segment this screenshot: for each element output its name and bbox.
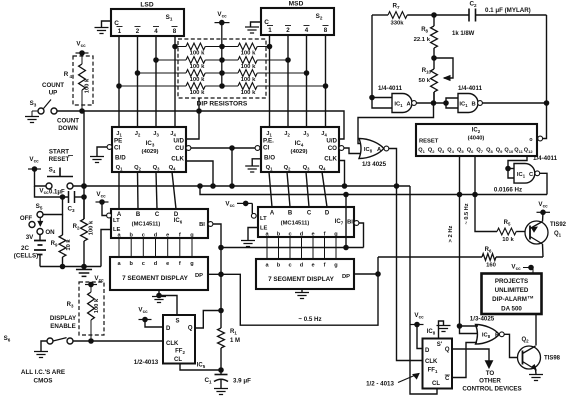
svg-text:CI: CI	[263, 145, 269, 152]
svg-text:IC1: IC1	[517, 172, 526, 179]
wire IC4 CLK down to bus	[339, 161, 345, 187]
svg-text:e: e	[166, 233, 169, 239]
svg-text:8: 8	[324, 27, 328, 34]
svg-text:~ 0.5 Hz: ~ 0.5 Hz	[298, 316, 321, 323]
svg-text:S': S'	[437, 342, 443, 348]
wire C2 node down to IC2 clock	[543, 15, 547, 139]
svg-text:Q3: Q3	[153, 165, 161, 172]
svg-text:DP: DP	[195, 273, 203, 279]
ground at S3	[31, 111, 33, 116]
wire display1 DP to blink loop	[208, 257, 378, 325]
ground at IC4 B/O	[245, 166, 259, 172]
svg-text:50 k: 50 k	[419, 78, 431, 84]
svg-text:R9: R9	[51, 241, 58, 248]
svg-text:22.1 k: 22.1 k	[414, 37, 431, 43]
resistor 100k row 3 left	[138, 72, 187, 74]
wire MSD pin 8 to IC4 J4	[325, 35, 327, 127]
thumbwheel switch S2 (MSD)	[261, 1, 334, 36]
wire Q1 emitter to R6 line	[542, 244, 545, 257]
resistor R7 330k	[372, 14, 388, 16]
7 segment display 2	[256, 259, 354, 289]
svg-text:4: 4	[305, 27, 309, 34]
svg-text:DISPLAY: DISPLAY	[50, 315, 77, 322]
svg-text:ON: ON	[45, 229, 55, 236]
ground above FF1 S-prime	[439, 321, 444, 339]
svg-text:Q3: Q3	[438, 148, 445, 155]
svg-text:Q2: Q2	[134, 165, 142, 172]
svg-text:IC8: IC8	[427, 329, 436, 336]
flip-flop FF1 (1/2-4013)	[423, 339, 453, 389]
svg-text:> 2 Hz: > 2 Hz	[448, 225, 454, 242]
svg-text:R2: R2	[73, 224, 80, 231]
ground at S6	[34, 352, 48, 358]
svg-text:CI: CI	[114, 145, 120, 152]
svg-text:Q11: Q11	[514, 148, 523, 155]
wire IC2 Q12 to IC1C input	[508, 156, 527, 178]
svg-text:J3: J3	[303, 131, 309, 138]
svg-text:1/3 4025: 1/3 4025	[362, 161, 387, 168]
svg-text:IC1: IC1	[459, 102, 468, 109]
wire MSD pin 4 to IC4 J3	[306, 35, 308, 127]
transistor Q1 TIS92	[525, 221, 548, 244]
svg-text:10 k: 10 k	[502, 237, 514, 243]
ground bottom wire	[40, 266, 101, 268]
resistor R3 100k in dashed box	[79, 282, 104, 335]
resistor R4 100k in dashed box	[73, 56, 93, 105]
svg-text:RESET: RESET	[419, 139, 439, 145]
wire display2 DP junction	[354, 273, 378, 275]
wire FF2 CL to C1 node	[180, 364, 221, 371]
svg-text:IC1: IC1	[394, 102, 403, 109]
svg-text:CLK: CLK	[425, 359, 438, 365]
svg-text:d: d	[300, 263, 304, 269]
wire IC1B output to C2 right node	[482, 102, 546, 104]
display driver IC6 (MC14511)	[111, 209, 208, 239]
svg-text:100 k: 100 k	[190, 64, 205, 70]
svg-text:TIS98: TIS98	[544, 356, 561, 362]
svg-text:START: START	[49, 149, 69, 156]
svg-text:1/4-4011: 1/4-4011	[458, 85, 483, 92]
svg-text:ENABLE: ENABLE	[50, 323, 75, 330]
wire IC3 Q2 to IC6 B	[137, 172, 140, 209]
wires into IC8B inputs	[460, 325, 479, 327]
svg-text:7 SEGMENT DISPLAY: 7 SEGMENT DISPLAY	[268, 276, 335, 283]
svg-text:Q1: Q1	[554, 231, 562, 238]
svg-text:f: f	[179, 233, 181, 239]
svg-text:DIP RESISTORS: DIP RESISTORS	[197, 101, 248, 108]
svg-text:100 k: 100 k	[241, 50, 256, 56]
svg-text:d: d	[154, 233, 158, 239]
svg-text:B: B	[288, 211, 293, 217]
svg-text:o: o	[529, 137, 532, 143]
wire IC7 BI to 0.0166Hz bus	[359, 223, 364, 248]
ground at IC3 PE	[90, 157, 104, 163]
svg-text:b: b	[277, 232, 281, 238]
resistor 100k row 1 left	[175, 46, 186, 48]
wire LSD C to ground	[102, 21, 112, 27]
svg-text:Q5: Q5	[457, 148, 464, 155]
svg-text:Q: Q	[445, 347, 450, 353]
main ground	[83, 267, 85, 270]
svg-text:CU: CU	[175, 145, 184, 152]
potentiometer R10 50k	[433, 58, 435, 69]
junction dots row 2	[220, 58, 225, 63]
wire IC2 tap to 0.0166 bus (2 Hz)	[459, 156, 461, 326]
svg-text:1/3-4025: 1/3-4025	[470, 316, 495, 323]
svg-text:100 k: 100 k	[89, 220, 95, 235]
svg-text:J2: J2	[135, 131, 141, 138]
svg-text:COUNT: COUNT	[42, 82, 64, 89]
svg-text:A: A	[270, 211, 275, 217]
wire IC1C output down to 0.0166Hz line	[540, 173, 547, 194]
ground at Q2 emitter	[535, 370, 538, 375]
svg-text:CO: CO	[328, 145, 337, 152]
wire MSD C to ground	[251, 22, 262, 27]
resistor R1 1M	[220, 311, 222, 329]
wiper wire of R10	[434, 58, 453, 78]
wire FF1 Q to other control devices	[452, 349, 489, 361]
svg-text:f: f	[324, 263, 326, 269]
wire CU branch down to clock bus	[231, 148, 233, 186]
svg-text:Q1: Q1	[418, 148, 425, 155]
svg-text:B: B	[472, 102, 476, 108]
wire LSD pin 2 to IC3 J2	[137, 36, 139, 127]
svg-text:J3: J3	[153, 131, 159, 138]
svg-text:Q4: Q4	[447, 148, 454, 155]
svg-text:100 k: 100 k	[94, 298, 100, 313]
wire IC7 LE to ground	[248, 228, 258, 241]
svg-text:CMOS: CMOS	[34, 378, 53, 385]
wire IC4 B/O to ground	[252, 159, 261, 166]
bubble at IC7 LT	[251, 213, 256, 218]
svg-text:100 k: 100 k	[85, 78, 91, 93]
wire LSD pin 4 to IC3 J3	[155, 36, 157, 127]
resistor 100k row 2 left	[156, 59, 186, 61]
junction dots row 3	[220, 71, 225, 76]
wire MSD pin 1 to IC4 J1	[269, 35, 271, 127]
resistor R6 160	[378, 256, 482, 258]
transistor Q2 TIS98	[518, 346, 541, 369]
wire DIP pack to count line	[198, 98, 200, 111]
svg-text:TIS92: TIS92	[550, 222, 566, 228]
bubble at IC7 BI	[354, 221, 359, 226]
svg-text:c: c	[288, 263, 291, 269]
ground at IC7 LE	[241, 241, 255, 247]
DIP resistor pack dashed box	[178, 39, 266, 98]
resistor R2 100k	[83, 197, 85, 219]
svg-text:2: 2	[286, 27, 290, 34]
svg-text:UP: UP	[49, 90, 58, 97]
svg-text:c: c	[288, 232, 291, 238]
wire FF1 Qbar feedback to IC8B	[452, 343, 477, 378]
svg-text:Q1: Q1	[266, 165, 274, 172]
svg-text:Q2: Q2	[428, 148, 435, 155]
svg-text:C: C	[264, 19, 269, 26]
svg-text:LT: LT	[113, 218, 120, 224]
svg-text:1: 1	[118, 28, 122, 35]
wire IC1A output down-left to NOR IC8A input	[358, 103, 434, 144]
7 segment display 1	[110, 257, 208, 290]
svg-text:COUNT: COUNT	[57, 118, 79, 125]
svg-text:R10: R10	[422, 68, 432, 75]
wire IC3 CLK down to bus	[186, 161, 213, 186]
svg-text:FF1: FF1	[428, 368, 438, 375]
svg-text:0.0166 Hz: 0.0166 Hz	[494, 187, 522, 194]
svg-text:R5: R5	[504, 220, 511, 227]
svg-text:CLK: CLK	[324, 156, 337, 163]
svg-text:Q2: Q2	[284, 165, 292, 172]
svg-text:100 k: 100 k	[241, 77, 256, 83]
wire count line to IC3 U/D	[186, 111, 199, 139]
svg-text:C: C	[445, 376, 450, 382]
svg-text:CONTROL DEVICES: CONTROL DEVICES	[462, 386, 521, 393]
display driver IC7 (MC14511)	[258, 207, 354, 238]
NOR gate IC8 A (1/3 4025)	[359, 139, 384, 159]
svg-text:330k: 330k	[390, 21, 404, 27]
svg-text:160: 160	[486, 263, 497, 269]
svg-text:1/2-4013: 1/2-4013	[134, 359, 159, 366]
svg-text:IC2: IC2	[472, 128, 481, 135]
svg-text:f: f	[324, 232, 326, 238]
svg-text:1k 1/8W: 1k 1/8W	[452, 31, 475, 37]
svg-text:Q7: Q7	[476, 148, 483, 155]
wire IC3 PE to ground	[97, 147, 107, 156]
svg-text:C: C	[155, 212, 160, 218]
svg-text:(CELLS): (CELLS)	[14, 253, 38, 260]
svg-text:Q4: Q4	[169, 165, 177, 172]
svg-text:1: 1	[268, 27, 272, 34]
svg-text:100 k: 100 k	[241, 90, 256, 96]
wires IC6 outputs a-g to display 1	[118, 238, 120, 257]
svg-text:100 k: 100 k	[241, 64, 256, 70]
svg-text:1/2 - 4013: 1/2 - 4013	[366, 381, 394, 388]
svg-text:0.1 μF (MYLAR): 0.1 μF (MYLAR)	[485, 7, 531, 14]
svg-text:Q8: Q8	[486, 148, 493, 155]
IC1A input wires	[372, 97, 392, 99]
svg-text:DOWN: DOWN	[58, 125, 78, 132]
svg-text:c: c	[142, 233, 145, 239]
svg-text:~ 0.5 Hz: ~ 0.5 Hz	[464, 203, 470, 224]
svg-text:CL: CL	[432, 381, 440, 387]
resistor R8 22.1k	[433, 15, 435, 26]
svg-text:IC5: IC5	[197, 363, 206, 370]
svg-text:1/4-4011: 1/4-4011	[533, 155, 558, 162]
ground below display 2	[301, 289, 303, 292]
wire IC4 Q3 to IC7 C	[306, 172, 309, 207]
ground at LSD	[95, 28, 109, 34]
vertical wire bus to FF1 CL loop	[410, 186, 437, 394]
svg-text:D: D	[425, 348, 430, 354]
svg-text:PROJECTS: PROJECTS	[495, 278, 528, 285]
wire LSD pin 8 to IC3 J4	[174, 36, 176, 127]
blanking line between IC6 BI and IC7 BI	[221, 247, 364, 249]
svg-text:DP: DP	[342, 274, 350, 280]
svg-text:Q10: Q10	[504, 148, 514, 155]
thumbwheel switch S1 (LSD)	[111, 2, 184, 37]
wires IC7 outputs a-g to display 2	[266, 237, 268, 259]
svg-text:UNLIMITED: UNLIMITED	[495, 287, 529, 294]
bubble at IC6 LT	[107, 213, 112, 218]
svg-text:100 k: 100 k	[190, 50, 205, 56]
resistor 100k row 4 left	[119, 85, 186, 87]
resistor 100k row 3 right	[222, 72, 238, 74]
svg-text:(4040): (4040)	[468, 136, 485, 142]
svg-text:(4029): (4029)	[290, 149, 307, 155]
svg-text:B: B	[136, 212, 141, 218]
svg-text:(MC14511): (MC14511)	[132, 222, 161, 228]
svg-text:CLK: CLK	[171, 156, 184, 163]
svg-text:7 SEGMENT DISPLAY: 7 SEGMENT DISPLAY	[122, 275, 189, 282]
svg-text:D: D	[166, 326, 171, 332]
junction dots row 4	[220, 84, 225, 89]
wire IC6 BI to blink line	[213, 224, 221, 311]
junction dots row 1	[220, 44, 225, 49]
svg-text:e: e	[166, 261, 169, 267]
svg-text:U/D: U/D	[326, 138, 337, 145]
wire R7 left leg down to IC1A inputs	[371, 15, 373, 98]
svg-text:2: 2	[136, 28, 140, 35]
svg-text:OTHER: OTHER	[479, 378, 501, 385]
svg-text:TO: TO	[486, 370, 495, 377]
svg-text:D: D	[325, 211, 330, 217]
capacitor C2 0.1uF mylar	[434, 14, 469, 16]
reset bus wire (horizontal)	[73, 185, 410, 187]
svg-text:Q4: Q4	[319, 165, 327, 172]
svg-text:LSD: LSD	[140, 2, 153, 9]
svg-text:LT: LT	[260, 216, 267, 222]
svg-text:PE: PE	[114, 138, 122, 145]
wire S6 to FF2 CLK	[73, 340, 163, 342]
svg-text:Q3: Q3	[303, 165, 311, 172]
svg-text:OFF: OFF	[20, 215, 33, 222]
wire IC3 Q3 to IC6 C	[156, 172, 157, 209]
svg-text:e: e	[311, 232, 314, 238]
svg-text:RESET: RESET	[49, 156, 70, 163]
wire IC8A output down to bus	[389, 149, 397, 187]
svg-text:IC8: IC8	[482, 333, 491, 340]
wire IC4 Q1 to IC7 A	[269, 172, 272, 207]
wire IC4 Q4 to IC7 D	[322, 172, 327, 207]
svg-text:1/4-4011: 1/4-4011	[378, 85, 403, 92]
wire IC6 LE to ground rail	[101, 230, 111, 267]
svg-text:R1: R1	[230, 329, 237, 336]
svg-text:DIP-ALARM: DIP-ALARM	[492, 296, 527, 303]
wire IC3 CU to IC4 CI	[191, 147, 255, 149]
resistor 100k row 1 right	[222, 46, 238, 48]
wire MSD pin 2 to IC4 J2	[287, 35, 289, 127]
svg-text:R8: R8	[421, 27, 428, 34]
svg-text:g: g	[190, 261, 194, 267]
svg-text:IC8: IC8	[364, 147, 373, 154]
svg-text:R6: R6	[485, 247, 492, 254]
wire LSD pin 1 to IC3 J1	[118, 36, 120, 127]
svg-text:d: d	[300, 232, 304, 238]
wire IC2 tap to R5 (0.5 Hz)	[475, 156, 497, 232]
vertical wire NOR output to FF1 CLK	[397, 186, 423, 361]
svg-text:f: f	[179, 261, 181, 267]
svg-text:8: 8	[173, 28, 177, 35]
svg-text:IC6: IC6	[174, 218, 183, 225]
svg-text:BI: BI	[347, 220, 353, 226]
svg-text:DA 500: DA 500	[501, 306, 522, 313]
svg-text:c: c	[142, 261, 145, 267]
counter IC4 (4029)	[261, 127, 339, 172]
counter IC3 (4029)	[112, 127, 186, 172]
svg-text:B/D: B/D	[115, 155, 126, 162]
svg-text:b: b	[129, 261, 133, 267]
bubble at IC3 PE input	[107, 145, 112, 150]
bubble at IC4 CO output	[339, 146, 344, 151]
svg-text:IC7: IC7	[335, 219, 344, 226]
IC1B input wires	[446, 98, 458, 103]
wire 0.0166 bus down to blanking line	[345, 195, 347, 248]
resistor R5 10k	[497, 228, 516, 235]
svg-text:BI: BI	[199, 222, 205, 228]
svg-text:g: g	[334, 232, 338, 238]
svg-text:g: g	[190, 233, 194, 239]
ground below display 1	[158, 290, 160, 296]
DIP-ALARM DA 500 module	[482, 274, 542, 315]
svg-text:TM: TM	[528, 295, 534, 300]
svg-text:CL: CL	[174, 357, 182, 363]
svg-text:100 k: 100 k	[190, 77, 205, 83]
wire DIP-ALARM to Q2 collector	[535, 314, 537, 346]
clock input bubble of IC2	[538, 136, 543, 141]
wire IC4 Q2 to IC7 B	[287, 172, 290, 207]
left vertical rail (count line to ground)	[83, 111, 85, 219]
svg-text:(4029): (4029)	[141, 149, 158, 155]
svg-text:Q: Q	[188, 326, 193, 332]
svg-text:4: 4	[154, 28, 158, 35]
svg-text:P.E.: P.E.	[263, 138, 274, 145]
svg-text:U/D: U/D	[173, 138, 184, 145]
ground at MSD	[245, 27, 259, 33]
svg-text:100 k: 100 k	[190, 90, 205, 96]
resistor R9 10k	[62, 215, 64, 236]
svg-text:CLK: CLK	[166, 341, 179, 347]
svg-text:3.9 μF: 3.9 μF	[233, 378, 251, 385]
svg-text:g: g	[334, 263, 338, 269]
bubble at IC3 CU output	[186, 146, 191, 151]
svg-text:R3: R3	[67, 302, 74, 309]
svg-text:J2: J2	[284, 131, 290, 138]
wire IC3 Q4 to IC6 D	[172, 172, 176, 209]
svg-text:3V: 3V	[26, 234, 34, 241]
svg-text:1 M: 1 M	[230, 338, 240, 344]
wire IC4 CO to NOR gate IC8A input	[344, 148, 361, 154]
svg-text:B: B	[495, 333, 499, 339]
svg-text:Q2: Q2	[521, 337, 529, 344]
flip-flop FF2 (1/2-4013)	[163, 315, 195, 364]
bubble at IC4 P.E. input	[255, 146, 260, 151]
svg-text:Q9: Q9	[496, 148, 503, 155]
svg-text:S: S	[175, 319, 179, 325]
wire FF2 Q to R1 top	[195, 311, 221, 329]
svg-text:FF2: FF2	[175, 349, 185, 356]
svg-text:C: C	[114, 20, 119, 27]
svg-text:MSD: MSD	[289, 1, 304, 8]
svg-text:Q12: Q12	[524, 148, 534, 155]
svg-text:Q6: Q6	[467, 148, 474, 155]
capacitor C1 3.9uF	[215, 374, 228, 376]
svg-text:B/O: B/O	[264, 155, 275, 162]
wire IC3 Q1 to IC6 A	[118, 172, 120, 209]
svg-text:(MC14511): (MC14511)	[281, 221, 310, 227]
0.0166 Hz bus wire	[200, 186, 547, 195]
svg-text:Q1: Q1	[116, 165, 124, 172]
svg-text:b: b	[277, 263, 281, 269]
svg-text:d: d	[154, 261, 158, 267]
